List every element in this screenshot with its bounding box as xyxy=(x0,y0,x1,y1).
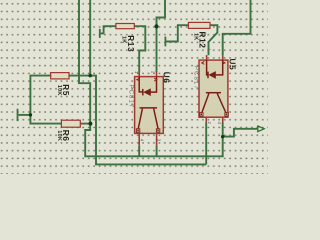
svg-text:10K: 10K xyxy=(56,130,62,141)
svg-text:U6: U6 xyxy=(162,72,171,84)
svg-text:1K: 1K xyxy=(192,33,198,41)
svg-text:PC817: PC817 xyxy=(128,85,134,109)
svg-text:U5: U5 xyxy=(227,59,236,71)
svg-text:10K: 10K xyxy=(56,85,62,96)
svg-text:PC817: PC817 xyxy=(193,66,199,90)
svg-text:1K: 1K xyxy=(121,36,127,44)
